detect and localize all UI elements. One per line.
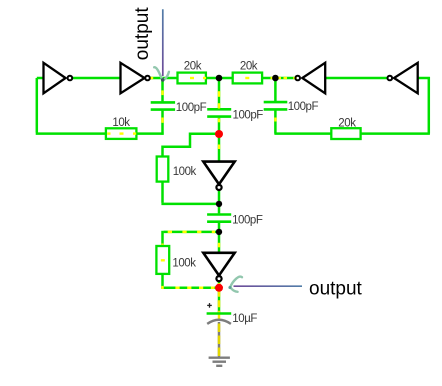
svg-text:20k: 20k	[240, 61, 258, 73]
svg-text:100pF: 100pF	[288, 101, 319, 113]
svg-text:100pF: 100pF	[233, 109, 264, 121]
svg-text:100k: 100k	[172, 257, 196, 269]
svg-text:100pF: 100pF	[232, 215, 263, 227]
svg-text:output: output	[309, 279, 363, 300]
svg-text:20k: 20k	[184, 61, 202, 73]
svg-text:20k: 20k	[338, 118, 356, 130]
svg-text:100pF: 100pF	[176, 102, 207, 114]
svg-text:10µF: 10µF	[232, 313, 257, 325]
svg-text:10k: 10k	[112, 117, 130, 129]
svg-text:100k: 100k	[173, 166, 197, 178]
svg-text:output: output	[132, 7, 153, 61]
